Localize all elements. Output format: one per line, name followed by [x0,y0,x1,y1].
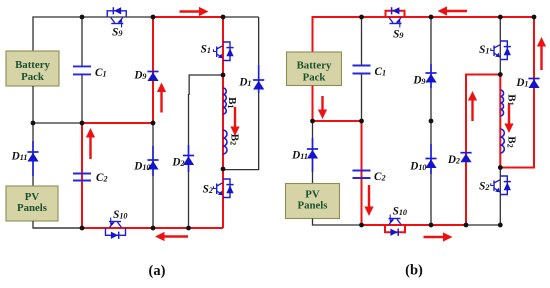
node: (b) mid D9 junction [429,119,434,124]
arrow: (a) D9 branch current up [157,83,166,113]
capacitor C1 (a) [73,66,91,74]
svg-text:S10: S10 [393,206,407,218]
svg-text:D11: D11 [11,151,28,163]
wire: (a) mid bus left segment [33,122,82,124]
wire: (a) D10 column [152,123,154,228]
wire: (a) bottom bus highlighted [82,227,223,229]
svg-text:D1: D1 [515,77,528,89]
diode D2 (b) [460,153,471,163]
wire: (a) C1 column [81,17,83,123]
diode D1 (a) [253,65,264,93]
inductor B2 (a) [223,130,227,154]
battery pack (b) [287,52,342,86]
capacitor C1 (b) [353,66,371,74]
node: (b) mid left junction [310,119,315,124]
wire: (b) battery to mid node highlighted [312,86,314,122]
PV panels (a) [6,186,58,221]
svg-text:C1: C1 [375,66,387,78]
arrow: (b) D1 branch current up [537,37,546,70]
arrow: (a) C2 branch current up [86,128,95,159]
label B2 (a) [228,134,240,145]
wire: (b) left battery column highlighted [312,16,314,52]
switch S1 (a) [214,42,234,61]
battery pack (a) [6,51,59,86]
wire: (a) top bus right segment [223,16,259,18]
node: (a) mid C2 junction [80,121,85,126]
node: (b) bottom D10 junction [429,223,434,228]
diode D10 (a) [147,146,158,176]
svg-text:Battery: Battery [297,59,332,71]
node: (a) top S1 junction [221,15,226,20]
svg-text:Pack: Pack [303,72,326,84]
node: (b) top D1 corner junction [532,15,537,20]
switch S9 (a) [107,7,126,27]
node: (b) bottom D2 junction [464,223,469,228]
wire: (b) inductor column highlighted [499,75,501,168]
wire: (b) S1 column top [499,17,501,75]
diode D1 (b) [528,79,539,89]
diode D11 (a) [27,141,38,176]
switch S10 (a) [106,218,126,239]
wire: (b) D2 to S1 junction highlighted [465,74,500,76]
arrow: (b) battery current down [318,96,327,119]
svg-text:S2: S2 [203,184,213,196]
wire: (a) switch column highlighted [222,17,224,228]
node: (a) S1 emitter junction [221,73,226,78]
svg-text:D2: D2 [171,157,184,169]
diode D10 (b) [425,144,436,174]
svg-text:D9: D9 [133,70,146,82]
arrow: (b) top current left [438,6,468,15]
wire: (a) top bus left segment [33,16,153,18]
capacitor C2 (a) [73,174,91,181]
svg-text:S1: S1 [479,44,489,56]
wire: (a) D1 branch [223,17,259,170]
wire: (a) mid bus highlighted segment [82,122,153,124]
wire: (a) D2 branch top [189,75,223,95]
svg-text:D10: D10 [409,161,426,173]
node: (a) B2 bottom junction [221,167,226,172]
label B1 (a) [226,97,238,108]
wire: (a) D2 column [188,94,190,228]
svg-text:(a): (a) [149,263,166,279]
svg-text:C2: C2 [96,172,108,184]
switch S2 (b) [491,176,511,195]
wire: (a) left battery column [32,16,34,51]
label B1 (b) [506,94,518,105]
svg-text:D10: D10 [133,161,150,173]
wire: (b) bottom bus right segment [466,224,500,226]
diode D9 (a) [147,72,158,82]
svg-text:C1: C1 [95,67,107,79]
wire: (b) top bus highlighted [313,16,535,18]
switch S2 (a) [214,179,234,198]
diode D11 (b) [307,138,318,172]
svg-text:D11: D11 [291,150,308,162]
wire: (b) bottom bus highlighted [362,224,467,226]
node: (a) mid left junction [31,121,36,126]
wire: (b) C1 column [361,17,363,121]
svg-text:D1: D1 [238,77,251,89]
wire: (b) B2 to D1 branch highlighted [500,17,534,168]
arrow: (b) D2 branch current up [468,91,477,121]
svg-text:B1: B1 [506,94,518,105]
svg-text:Panels: Panels [298,200,328,212]
capacitor C2 (b) [353,171,371,179]
svg-text:D2: D2 [447,154,460,166]
PV panels (b) [286,184,340,219]
svg-text:C2: C2 [374,171,386,183]
node: (b) top C1 junction [359,15,364,20]
svg-text:Battery: Battery [15,59,50,71]
node: (b) top S1 junction [498,15,503,20]
diode D9 (b) [425,64,436,88]
svg-text:S9: S9 [393,29,403,41]
inductor B1 (a) [223,88,226,114]
node: (b) bottom S2 junction [498,223,503,228]
svg-text:S2: S2 [479,181,489,193]
wire: (b) D9-D10 column [430,17,432,225]
svg-text:B1: B1 [226,97,238,108]
inductor B1 (b) [500,90,503,116]
svg-text:Panels: Panels [17,202,47,214]
node: (a) top D9 junction [151,15,156,20]
svg-text:S1: S1 [201,44,211,56]
node: (b) bottom C2 junction [359,223,364,228]
arrow: (a) top current direction [180,7,209,16]
wire: (a) PV bottom corner [33,221,82,228]
node: (b) S1 emitter junction [498,72,503,77]
svg-text:B2: B2 [228,134,240,145]
arrow: (a) bottom current left [155,232,188,241]
wire: (b) S2 column [499,168,501,226]
wire: (b) mid node to D11 [312,121,314,184]
node: (b) top D9 junction [429,15,434,20]
arrow: (a) inductor current down [230,107,239,136]
wire: (a) battery to mid node [32,86,34,123]
inductor B2 (b) [500,129,504,153]
svg-text:S10: S10 [113,209,127,221]
wire: (b) mid bus highlighted [313,120,362,122]
switch S1 (b) [491,41,511,60]
wire: (a) bottom bus left segment [33,227,82,229]
svg-text:(b): (b) [405,263,423,279]
svg-text:B2: B2 [505,136,517,147]
wire: (b) PV bottom corner [313,219,362,226]
label B2 (b) [505,136,517,147]
arrow: (b) inductor current down [504,104,513,133]
arrow: (b) C2 branch current down [364,185,373,216]
switch S9 (b) [386,7,405,27]
svg-text:D9: D9 [412,75,425,87]
svg-text:S9: S9 [112,27,122,39]
wire: (a) C2 column highlighted [81,123,83,228]
node: (a) bottom C2 junction [80,226,85,231]
node: (a) bottom D2 junction [186,226,191,231]
node: (a) mid D9 junction [151,121,156,126]
svg-text:Pack: Pack [21,71,44,83]
wire: (b) C2 column highlighted [361,121,363,225]
wire: (a) D9 column highlighted [152,17,154,123]
switch S10 (b) [385,215,405,236]
node: (a) top C1 junction [80,15,85,20]
arrow: (b) bottom current right [424,232,453,241]
wire: (a) top bus highlighted segment [153,16,223,18]
diode D2 (a) [183,145,194,172]
node: (b) mid C1 junction [359,119,364,124]
wire: (b) D2 column highlighted [465,75,467,226]
wire: (a) mid node to D11 [32,123,34,186]
node: (a) bottom D10 junction [151,226,156,231]
node: (b) B2 bottom junction [498,165,503,170]
